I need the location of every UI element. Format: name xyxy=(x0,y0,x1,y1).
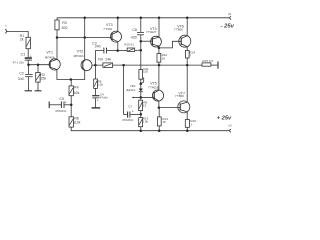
wire VT5 emitter to VT7 base xyxy=(159,107,180,109)
node VT4 base tap xyxy=(140,40,143,43)
wire R16 to bottom rail xyxy=(186,127,188,130)
terminal output jack xyxy=(48,102,50,109)
wire C4 to ground xyxy=(95,98,97,108)
svg-text:+: + xyxy=(132,109,134,113)
transistor VT3 xyxy=(111,31,122,42)
svg-text:R15 0,5: R15 0,5 xyxy=(202,59,213,63)
svg-text:C6: C6 xyxy=(132,28,137,32)
terminal XT -25v xyxy=(230,16,231,19)
wire mid line VT2 to output resistor xyxy=(95,64,202,66)
transistor VT5 xyxy=(152,90,163,101)
svg-text:+: + xyxy=(65,101,67,105)
node rail junction VT3 xyxy=(117,17,120,20)
svg-text:8,2k: 8,2k xyxy=(74,121,81,125)
resistor R15 xyxy=(202,63,211,66)
svg-text:1,2k: 1,2k xyxy=(97,82,103,86)
wire R14 to output node xyxy=(186,58,188,65)
wire junction to VT3 base xyxy=(57,37,112,39)
wire VT5 base xyxy=(141,96,154,98)
wire C3 to VT3 emitter node xyxy=(107,50,118,52)
node emitter R4 tap xyxy=(70,78,73,81)
wire node to R2 xyxy=(37,65,39,73)
wire R1 to C1 xyxy=(27,49,29,58)
wire R5 to C4 xyxy=(95,88,97,95)
svg-text:24k: 24k xyxy=(105,58,111,62)
node R10 junction xyxy=(140,49,143,52)
svg-text:C1: C1 xyxy=(21,53,26,57)
wire VT6 emitter xyxy=(186,47,188,51)
transistor VT6 xyxy=(179,35,191,47)
node VT2 collector crossing xyxy=(83,36,86,39)
wire C2 to ground xyxy=(28,77,30,91)
wire C7 feedback drop xyxy=(124,65,128,114)
terminal output right xyxy=(217,61,219,68)
transistor VT2 xyxy=(81,60,92,71)
svg-text:15: 15 xyxy=(162,57,166,61)
transistor VT7 xyxy=(178,101,190,113)
svg-text:R10 51: R10 51 xyxy=(124,42,134,46)
node bottom rail R13 xyxy=(140,129,143,132)
svg-text:VT1: VT1 xyxy=(46,50,53,54)
node R12 junction xyxy=(158,64,161,67)
wire VT1 emitter to common xyxy=(57,70,85,80)
node rail junction C6 xyxy=(140,17,143,20)
terminal XT +25v xyxy=(230,129,231,132)
node R2 tap xyxy=(37,63,40,66)
capacitor C6 xyxy=(137,32,144,34)
wire R6 to bottom rail xyxy=(71,127,229,131)
wire VD1 to VT5 base node xyxy=(140,92,142,101)
wire C6 to VT4 base node xyxy=(140,35,142,41)
wire VT3 emitter down xyxy=(117,42,119,51)
resistor R3 xyxy=(56,18,58,20)
svg-text:ГТ402Б: ГТ402Б xyxy=(148,85,158,89)
svg-text:МП40А: МП40А xyxy=(45,56,55,60)
wire VT2 emitter right xyxy=(92,64,95,66)
capacitor C5 xyxy=(60,101,62,108)
wire jack to C5 xyxy=(49,104,61,106)
svg-text:x3: x3 xyxy=(228,124,232,128)
wire VT7 emitter xyxy=(186,112,188,120)
node R14 output junction xyxy=(186,64,189,67)
svg-text:1,9k: 1,9k xyxy=(142,120,148,124)
wire R3 to VT1 collector xyxy=(56,30,58,59)
wire R13 to bottom rail xyxy=(140,127,142,131)
svg-text:ГТ806: ГТ806 xyxy=(174,27,183,31)
wire R12 to mid node xyxy=(158,62,160,65)
svg-text:+: + xyxy=(30,54,32,58)
node C2 tap xyxy=(27,63,30,66)
node bottom rail R16 xyxy=(186,129,189,132)
node R5 tap xyxy=(94,64,97,67)
svg-text:2k: 2k xyxy=(20,38,24,42)
svg-text:47x6v: 47x6v xyxy=(100,96,109,100)
wire VT5 emitter down xyxy=(158,101,160,108)
capacitor C3 xyxy=(103,48,105,54)
wire VT2 collector to rail xyxy=(84,18,86,60)
svg-text:R4: R4 xyxy=(74,86,79,90)
node VT4 emitter xyxy=(158,47,161,50)
svg-text:C7: C7 xyxy=(128,104,132,108)
svg-text:13: 13 xyxy=(143,103,147,107)
wire R17 to bottom rail xyxy=(158,126,160,131)
wire C3 hook xyxy=(95,51,103,66)
svg-text:МП40А: МП40А xyxy=(74,54,84,58)
transistor VT1 xyxy=(49,59,60,70)
resistor R2 xyxy=(36,73,40,83)
terminal input xyxy=(5,29,6,33)
wire output node to VT7 collector xyxy=(186,65,188,102)
svg-text:ГТ806: ГТ806 xyxy=(175,94,184,98)
wire C5 to node xyxy=(64,104,71,106)
svg-text:62k: 62k xyxy=(74,91,80,95)
svg-text:340: 340 xyxy=(18,77,24,81)
node VT5 base tap xyxy=(140,96,143,99)
transistor VT4 xyxy=(151,36,162,47)
resistor R12 xyxy=(157,54,161,63)
ground C2 xyxy=(25,90,32,92)
capacitor C2 xyxy=(25,73,33,75)
resistor R8 xyxy=(139,100,143,110)
node rail junction VT2 xyxy=(83,17,86,20)
wire link to VT6 base xyxy=(159,41,181,48)
resistor R10 xyxy=(127,48,134,52)
resistor R9 xyxy=(103,63,113,68)
node wiper junction xyxy=(140,82,143,85)
svg-text:470x63v: 470x63v xyxy=(55,109,67,113)
ground R2 xyxy=(35,90,42,92)
wire center column down xyxy=(140,41,142,69)
ground C4 xyxy=(92,107,101,109)
wire R10 to center column xyxy=(135,49,141,51)
svg-text:- 25v: - 25v xyxy=(221,24,235,30)
node VT3 emitter xyxy=(116,49,119,52)
svg-text:15k: 15k xyxy=(40,77,46,81)
wire R2 to ground xyxy=(37,82,39,91)
svg-text:240: 240 xyxy=(95,44,101,48)
wire node to VT1 base xyxy=(28,64,50,66)
svg-text:ГТ402: ГТ402 xyxy=(104,27,113,31)
wire C7 to R8 node xyxy=(130,113,141,115)
capacitor C7 xyxy=(127,112,129,118)
svg-text:C5: C5 xyxy=(59,97,64,101)
wire VT4 collector to rail xyxy=(158,18,160,37)
wire R5 drop xyxy=(94,65,96,79)
wire VT3 collector to rail xyxy=(117,18,119,32)
wire node to C2 xyxy=(28,65,30,74)
node rail junction VT4 xyxy=(158,17,161,20)
node bottom rail R17 xyxy=(158,129,161,132)
svg-text:VD1: VD1 xyxy=(130,84,136,88)
wire to R12 xyxy=(158,48,160,54)
resistor R1 xyxy=(26,37,30,48)
svg-text:150: 150 xyxy=(143,70,148,74)
svg-text:R9: R9 xyxy=(98,58,103,62)
svg-text:300: 300 xyxy=(61,26,67,30)
wire to R10 xyxy=(118,50,128,52)
wire to R17 xyxy=(158,108,160,117)
wire test stub xyxy=(133,96,141,98)
wire VT6 collector to rail xyxy=(186,18,188,36)
diode VD1 xyxy=(139,89,143,92)
node VT5 emitter xyxy=(158,106,161,109)
wire R8 to C7 node xyxy=(140,111,142,118)
resistor R5 xyxy=(94,79,98,88)
svg-text:C2: C2 xyxy=(19,71,24,75)
wire top supply rail xyxy=(57,17,229,19)
resistor R17 xyxy=(157,117,161,126)
svg-text:+ 25v: + 25v xyxy=(217,116,232,122)
svg-text:47 x 25v: 47 x 25v xyxy=(13,60,25,64)
resistor R6 xyxy=(69,117,73,127)
svg-text:430: 430 xyxy=(131,35,137,39)
wire R15 to output bar xyxy=(211,64,218,66)
svg-text:+: + xyxy=(97,98,99,102)
capacitor C4 xyxy=(92,95,99,97)
svg-text:15: 15 xyxy=(162,120,166,124)
svg-text:Д311А: Д311А xyxy=(126,88,135,92)
wire R4 chain down xyxy=(70,80,72,86)
wire VT5 collector up xyxy=(158,65,160,90)
resistor R16 xyxy=(185,120,189,128)
wire R11 to VD1 xyxy=(140,79,142,88)
svg-text:470x63v: 470x63v xyxy=(122,118,134,122)
resistor R13 xyxy=(139,118,143,127)
capacitor C1 xyxy=(25,57,32,59)
wire VT4 emitter xyxy=(158,46,160,48)
svg-text:R3: R3 xyxy=(62,21,67,25)
resistor R4 xyxy=(69,86,73,96)
wire C6 from rail xyxy=(140,18,142,32)
node R3 base-wire junction xyxy=(56,36,59,39)
wire trimmer wiper xyxy=(141,77,144,83)
node C5 tap xyxy=(70,104,73,107)
svg-text:x2: x2 xyxy=(228,12,232,16)
node C7 tap xyxy=(140,113,143,116)
resistor R14 xyxy=(185,51,189,59)
wire R4 to C5 node xyxy=(70,96,72,117)
wire to VT4 base xyxy=(141,40,153,42)
node rail junction VT6 xyxy=(186,17,189,20)
node C7 feedback tap xyxy=(122,64,125,67)
wire C1 to node xyxy=(27,61,29,65)
svg-text:ГТ402Г: ГТ402Г xyxy=(146,30,156,34)
resistor R11 trimmer xyxy=(139,70,143,80)
wire input to R1 xyxy=(7,32,29,38)
